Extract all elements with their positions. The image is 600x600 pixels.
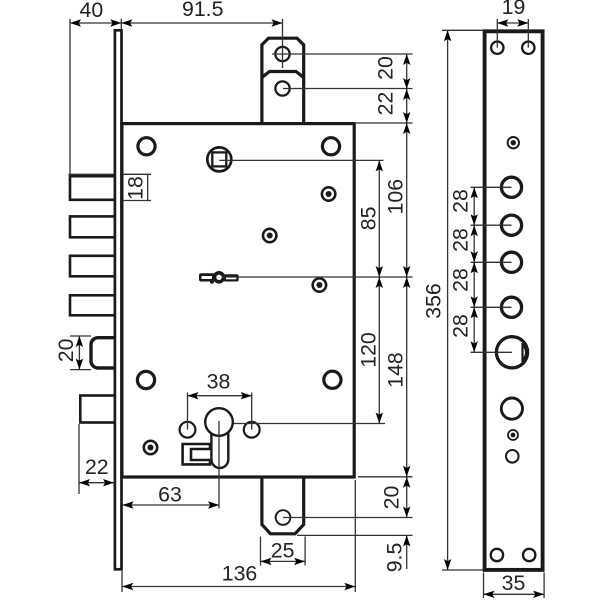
side plate screw hole with pin: [508, 137, 519, 148]
dim 63: [123, 483, 220, 509]
svg-text:28: 28: [449, 268, 473, 292]
svg-text:85: 85: [357, 207, 381, 231]
svg-text:28: 28: [449, 228, 473, 252]
dim 18: [69, 174, 152, 200]
side bolt hole 2: [501, 215, 521, 235]
svg-text:91.5: 91.5: [182, 0, 223, 21]
side bolt hole 3: [501, 252, 521, 272]
svg-text:19: 19: [502, 0, 526, 19]
side bolt hole 4: [501, 297, 521, 317]
side plate outline: [485, 31, 543, 570]
top tab screw hole (with crosshair): [275, 47, 289, 61]
dim 28 chain: [449, 187, 513, 352]
svg-text:22: 22: [374, 92, 398, 116]
dim 35: [484, 571, 545, 598]
svg-text:20: 20: [54, 338, 78, 362]
screw hole A (top right): [322, 187, 335, 200]
svg-text:20: 20: [374, 56, 398, 80]
bottom tab hole: [276, 510, 291, 525]
svg-text:25: 25: [271, 539, 295, 563]
bolt rectangle R1 (18mm deadbolt): [70, 176, 117, 200]
side bottom screw right: [523, 549, 535, 561]
bottom tab bottom extension: [297, 534, 413, 536]
dim 38: [188, 370, 252, 430]
side bolt hole 1: [501, 177, 521, 197]
svg-text:40: 40: [80, 0, 104, 22]
svg-text:106: 106: [384, 179, 408, 215]
faceplate: [115, 30, 122, 569]
body hole bottom-right: [324, 371, 341, 388]
latch bolt (20mm, rounded): [91, 338, 117, 368]
svg-text:148: 148: [384, 352, 408, 388]
svg-text:9.5: 9.5: [383, 543, 407, 573]
screw hole D (bottom left): [144, 441, 157, 454]
dim 120 / 148: [357, 332, 411, 477]
bolt rectangle R2: [70, 216, 117, 237]
svg-text:18: 18: [124, 176, 148, 200]
dim 20 bottom right: [380, 477, 411, 518]
screw hole C (right lower): [313, 278, 326, 291]
lock body outline: [122, 124, 354, 477]
top tab lower hole: [275, 81, 289, 95]
dim 20 latch: [54, 336, 91, 370]
square spindle hub: [207, 147, 231, 171]
cylinder cam: [183, 444, 210, 464]
svg-text:136: 136: [222, 562, 258, 586]
svg-text:28: 28: [449, 314, 473, 338]
svg-text:28: 28: [449, 189, 473, 213]
euro cylinder circle: [205, 408, 233, 436]
keyhole center horizontal extension line: [219, 423, 385, 425]
side bottom screw left: [491, 549, 503, 561]
svg-text:20: 20: [380, 486, 404, 510]
side small hole: [506, 450, 519, 463]
euro cylinder body: [211, 428, 228, 468]
bottom mounting tab: [262, 477, 304, 534]
dim 22 bottom left: [79, 424, 114, 494]
top mounting tab: [262, 38, 304, 123]
screw hole B (middle): [263, 229, 276, 242]
dim 20 / 22 top right chain: [356, 54, 413, 518]
spindle extension line: [219, 159, 383, 161]
dim 9.5: [383, 535, 411, 572]
toggle extension line: [222, 276, 413, 278]
side screw hole with pin 2: [508, 430, 518, 440]
side latch hole (large with insert): [496, 337, 527, 368]
dim 19 side plate: [497, 0, 528, 48]
dim 91.5: [121, 0, 282, 68]
dim 40: [70, 0, 121, 174]
side plate top screw left: [491, 42, 503, 54]
bolt rectangle R3: [70, 256, 117, 276]
dim 356: [422, 30, 484, 570]
cylinder side hole right: [244, 422, 260, 438]
bolt rectangle R5: [80, 396, 117, 423]
side plate top screw right: [522, 42, 534, 54]
side medium hole: [501, 398, 522, 419]
body hole top-left: [138, 138, 155, 155]
dim 25: [261, 537, 306, 566]
cylinder circle side holes (38mm) left: [180, 422, 196, 438]
dim 136: [122, 480, 355, 592]
bolt rectangle R4: [70, 295, 117, 315]
top tab circle crosshair horizontals: [272, 53, 413, 55]
svg-text:63: 63: [158, 483, 182, 507]
dim 85 / 106: [357, 160, 411, 423]
body bottom extension: [358, 476, 413, 478]
svg-text:38: 38: [207, 370, 231, 394]
svg-text:22: 22: [85, 455, 109, 479]
svg-text:356: 356: [422, 283, 446, 319]
toggle lever: [199, 271, 239, 284]
body hole bottom-left: [137, 371, 154, 388]
body hole top-right: [322, 138, 339, 155]
top tab inner chamfer line: [262, 72, 304, 78]
bottom tab circle extension: [283, 517, 413, 519]
keyhole vertical centerline: [218, 421, 220, 509]
svg-text:120: 120: [357, 332, 381, 368]
svg-text:35: 35: [502, 571, 526, 595]
